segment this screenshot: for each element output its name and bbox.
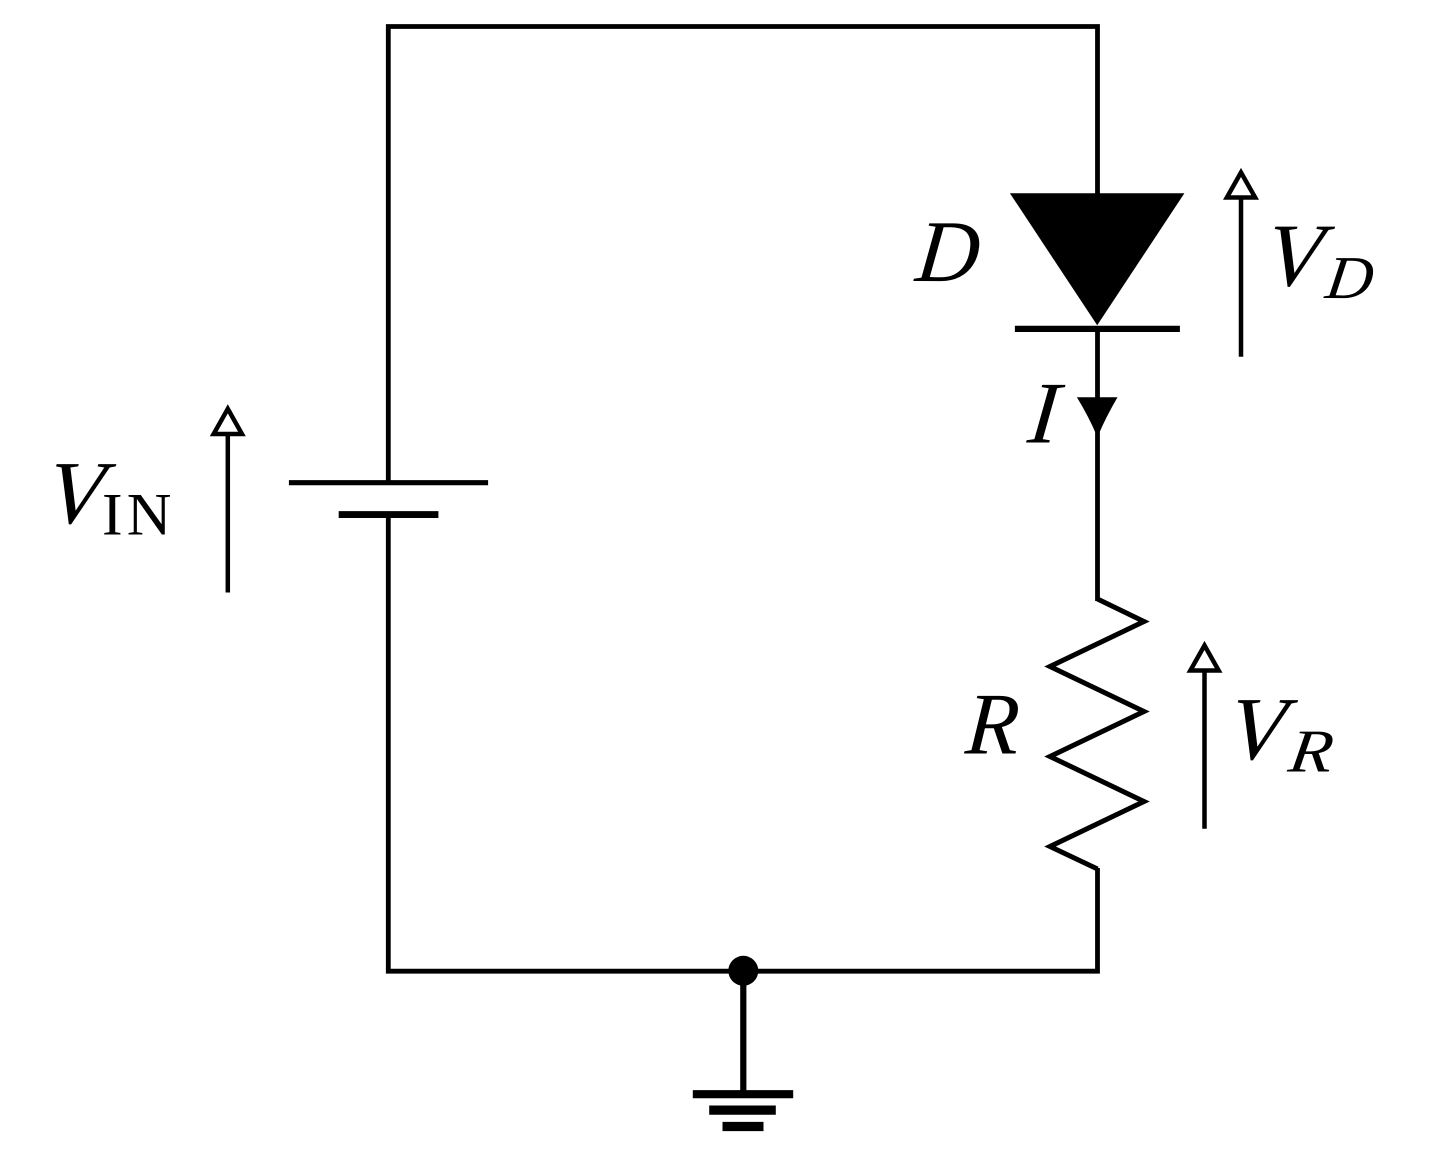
- voltage arrow V_D (open head): [1223, 168, 1259, 357]
- ground bar 2: [709, 1105, 776, 1114]
- voltage arrow V_IN (open head): [210, 404, 246, 592]
- svg-text:D: D: [1321, 244, 1378, 312]
- node junction dot: [728, 956, 758, 986]
- svg-text:R: R: [1284, 718, 1338, 785]
- battery V_IN long plate (positive): [289, 480, 488, 485]
- svg-text:D: D: [911, 202, 985, 299]
- wire top loop (left vertical, top horizontal, right drop to diode): [388, 27, 1097, 482]
- diode D cathode bar: [1015, 326, 1180, 332]
- ground bar 1: [693, 1090, 793, 1098]
- battery V_IN short plate (negative): [339, 511, 439, 518]
- wire diode to resistor: [1095, 329, 1100, 601]
- diode D triangle (anode): [1010, 193, 1185, 325]
- wire bottom loop (battery to bottom rail and up to resistor): [388, 515, 1097, 971]
- svg-text:R: R: [962, 675, 1023, 773]
- ground bar 3: [723, 1122, 764, 1131]
- voltage arrow V_R (open head): [1187, 641, 1223, 829]
- resistor R zigzag: [1050, 599, 1144, 869]
- svg-text:I: I: [1023, 365, 1067, 462]
- svg-text:IN: IN: [102, 482, 176, 548]
- ground stem wire: [740, 971, 746, 1094]
- current arrowhead I: [1077, 397, 1118, 434]
